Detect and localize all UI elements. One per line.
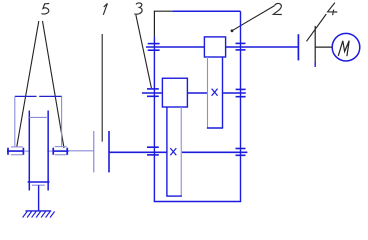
frame top black segment [154,10,172,12]
stub from wheel to right pulley [47,150,52,152]
pulley right: end bars [52,148,54,155]
belt loop right edge [61,96,63,146]
slider R2 right side [222,57,224,128]
ground hatching [23,212,55,218]
wheel crossbar [29,116,48,118]
slider R3 left side [166,107,168,196]
shaft C (bottom) left segment [109,151,167,153]
ground line [26,210,52,212]
x-mark on shaft B [212,89,218,96]
shaft B (middle) segments [142,92,163,94]
slider R3 right side [180,107,182,196]
leader from 3 to gear on shaft B [136,15,152,88]
shaft A (top) segments [146,46,204,48]
gear on shaft A left: caps [148,43,160,45]
label 3 [134,3,142,14]
slider R2 left side [207,57,209,128]
support thin plate [32,184,45,186]
leader 2 end dot [231,29,234,32]
coupling 4 left half (blue) [297,34,299,60]
support stem [38,185,40,211]
wheel (disk) right side [47,111,49,191]
gear on shaft B right: caps [236,88,246,90]
label 4 [328,3,338,16]
wheel (disk) left side [28,111,30,191]
coupling right disc [108,131,110,172]
frame top blue segment [172,10,240,12]
gear block B3 on shaft B [162,78,187,107]
pulley left: end bars [7,148,9,155]
motor shaft stub [315,46,332,48]
frame left vertical black segment [153,11,155,37]
label 1 [103,3,107,14]
leader from 5 to right pulley [43,21,65,148]
gear on shaft B left: caps [147,88,159,90]
slider R2 bottom cap [207,127,223,129]
leader from 1 (vertical) [101,34,103,142]
support cap [28,181,50,183]
right gear axis vertical [240,11,242,201]
belt loop left edge [14,96,16,146]
x-mark on shaft C [170,148,176,155]
thin shaft from right pulley to coupling [69,150,94,152]
pulley left: rim caps [11,146,23,148]
leader from 4 to coupling [307,14,327,41]
shaft C right segment [182,151,248,153]
leader from 5 to left pulley [17,21,39,147]
belt loop top edge (left mechanism) [15,95,37,97]
gear on shaft C right: caps [236,148,246,150]
leader from 2 to gear block B1 [232,6,275,31]
frame bottom [154,201,242,203]
pulley right: hub shaft [53,150,69,152]
left gear axis vertical [153,36,155,201]
slider R3 bottom cap [166,195,182,197]
pulley left: hub shaft [7,150,24,152]
coupling 4 right half (black) [314,26,316,62]
gear on shaft C left: caps [147,146,159,148]
coupling left disc [93,131,95,172]
gear block B1 on shaft A [204,37,225,57]
motor letter M [338,41,349,57]
motor circle [332,33,360,61]
coupling 4 right half blue tip [314,62,316,67]
gear on shaft A right: caps [236,42,246,44]
stub to wheel [24,150,29,152]
label 5 [42,3,50,14]
pulley right: rim caps [55,146,67,148]
label 2 [273,3,282,14]
